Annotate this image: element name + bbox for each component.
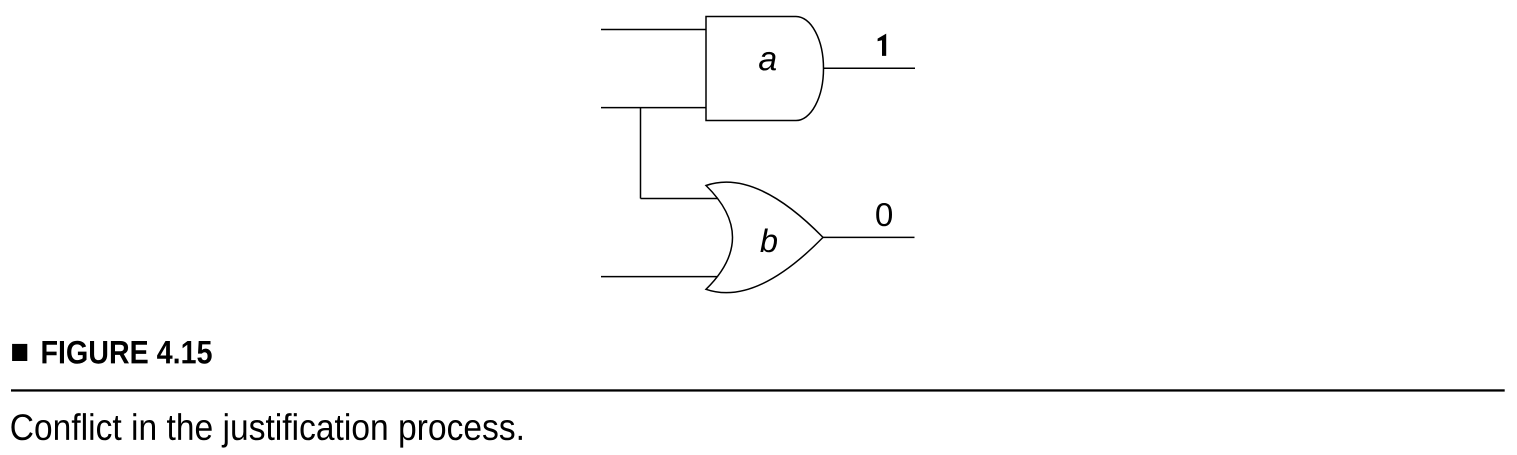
label b of OR gate xyxy=(760,229,777,253)
label a of AND gate xyxy=(759,52,776,71)
value 1 at AND gate output xyxy=(878,34,887,56)
OR gate b xyxy=(706,182,823,293)
value 0 at OR gate output xyxy=(876,203,892,226)
figure bullet square xyxy=(12,344,27,361)
wire top input of OR gate xyxy=(641,198,720,200)
figure number label FIGURE 4.15 xyxy=(42,341,211,364)
wire output of AND gate xyxy=(824,67,916,69)
wire bottom input of OR gate xyxy=(601,276,719,278)
wire top input of AND gate xyxy=(601,29,706,31)
figure caption: Conflict in the justification process. xyxy=(11,413,522,448)
wire bottom input of AND gate xyxy=(601,107,706,109)
horizontal rule xyxy=(11,389,1505,391)
wire output of OR gate xyxy=(823,236,915,238)
wire vertical branch from AND lower input node down xyxy=(640,108,642,199)
AND gate a xyxy=(706,17,824,121)
